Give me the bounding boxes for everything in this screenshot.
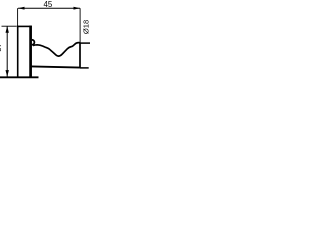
svg-text:Ø18: Ø18 [81,20,90,34]
svg-text:45: 45 [44,0,53,9]
svg-text:37: 37 [0,43,3,51]
